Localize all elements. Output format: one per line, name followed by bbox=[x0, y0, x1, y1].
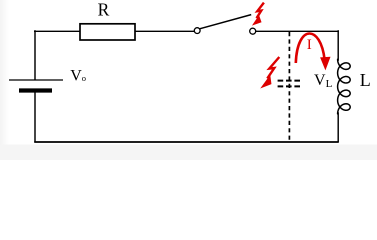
wire left vertical upper bbox=[34, 30, 36, 79]
capacitor plate upper (dashed) bbox=[278, 80, 302, 82]
wire resistor to switch bbox=[135, 30, 194, 32]
wire switch to right corner bbox=[256, 30, 339, 32]
page edge shading bottom bbox=[0, 145, 377, 161]
current arrow arc I bbox=[296, 34, 325, 64]
svg-text:L: L bbox=[360, 70, 371, 90]
switch contact right bbox=[250, 28, 256, 34]
inductor L coil bbox=[338, 59, 351, 114]
battery V0 short thick plate bbox=[19, 88, 52, 92]
switch contact left bbox=[194, 28, 200, 34]
wire bottom horizontal bbox=[34, 141, 339, 143]
spark bolt at capacitor bbox=[267, 57, 279, 78]
battery V0 long plate bbox=[9, 79, 63, 81]
resistor R bbox=[80, 24, 135, 40]
switch lever bbox=[200, 15, 252, 29]
dashed capacitor branch vertical wire bbox=[288, 32, 290, 141]
spark bolt at switch bbox=[257, 3, 264, 19]
svg-text:I: I bbox=[307, 37, 312, 53]
wire left vertical lower bbox=[34, 93, 36, 143]
capacitor plate lower (dashed) bbox=[278, 85, 302, 87]
wire right vertical lower bbox=[337, 112, 339, 142]
svg-text:R: R bbox=[98, 0, 110, 20]
wire right vertical upper bbox=[337, 30, 339, 61]
wire top-left horizontal bbox=[34, 30, 80, 32]
